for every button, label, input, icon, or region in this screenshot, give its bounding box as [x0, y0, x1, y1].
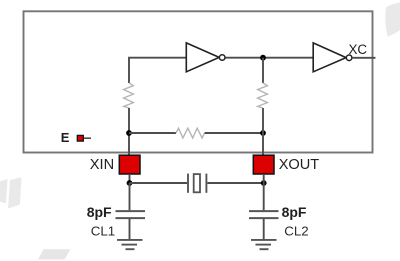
junction node between inverters [260, 55, 266, 61]
capacitor CL1 top plate [116, 210, 146, 212]
svg-text:CL1: CL1 [91, 223, 115, 238]
watermark bottom parallelogram [38, 249, 71, 259]
wire: inverter U2 output to XC [352, 57, 376, 59]
junction crystal right node [261, 180, 267, 186]
wire: node XIN to pin XIN [128, 133, 130, 156]
wire: node XOUT to pin XOUT [262, 133, 264, 156]
svg-text:CL2: CL2 [284, 223, 308, 238]
pin XOUT pad [253, 155, 274, 174]
inverter U1 bubble [219, 55, 225, 61]
wire: crystal left lead [130, 182, 188, 184]
ground (CL2) [251, 240, 277, 249]
svg-text:8pF: 8pF [87, 204, 112, 220]
svg-text:XC: XC [349, 42, 368, 57]
wire: capacitor CL1 to ground [129, 219, 131, 240]
IC boundary box [24, 11, 373, 152]
inverter U1 [186, 43, 219, 72]
wire: crystal right lead [207, 182, 263, 184]
wire: capacitor CL2 to ground [263, 219, 265, 240]
crystal Y1 body [194, 174, 200, 192]
resistor R1 [124, 83, 134, 108]
inverter U2 bubble [346, 55, 352, 61]
crystal Y1 right plate [205, 174, 207, 193]
watermark top-right swoosh [385, 3, 400, 37]
pin XIN pad [119, 155, 140, 174]
wire: crystal node down to capacitor CL2 [263, 183, 265, 210]
wire: junction down to resistor R2 [262, 58, 264, 83]
wire: R2 to node XOUT [262, 108, 264, 133]
resistor R2 [258, 83, 268, 108]
wire: enable pin stub [84, 137, 91, 139]
wire: crystal node down to capacitor CL1 [129, 183, 131, 210]
junction node XOUT [260, 130, 266, 136]
enable pin E square [77, 135, 83, 141]
svg-text:XIN: XIN [90, 157, 114, 173]
junction node XIN [126, 130, 132, 136]
svg-text:E: E [61, 130, 70, 145]
wire: pin XOUT to crystal node [263, 174, 265, 183]
junction crystal left node [127, 180, 133, 186]
watermark left pages [0, 177, 22, 208]
svg-text:XOUT: XOUT [279, 157, 320, 173]
inverter U2 [313, 43, 346, 72]
wire: pin XIN to crystal node [129, 174, 131, 183]
capacitor CL2 bottom plate [249, 217, 279, 219]
capacitor CL1 bottom plate [116, 217, 146, 219]
wire: resistor R3 to node XOUT [205, 132, 263, 134]
wire: left column top, inverter U1 input [129, 58, 187, 83]
capacitor CL2 top plate [249, 210, 279, 212]
crystal Y1 left plate [187, 174, 189, 193]
svg-text:8pF: 8pF [282, 204, 307, 220]
wire: inverter U1 output to inverter U2 input [225, 57, 313, 59]
resistor R3 [176, 128, 205, 138]
wire: R1 to node XIN [128, 108, 130, 133]
wire: node XIN to resistor R3 [129, 132, 176, 134]
ground (CL1) [117, 240, 143, 249]
